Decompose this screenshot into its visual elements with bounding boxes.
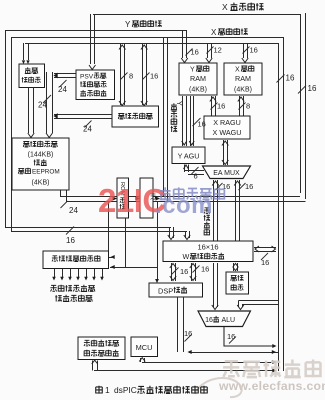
svg-text:X: X [211, 28, 217, 37]
svg-text:(4KB): (4KB) [189, 87, 207, 94]
block: instruction decode and control 指令译码及控制 [43, 251, 109, 269]
svg-text:16: 16 [66, 236, 75, 245]
svg-text:16: 16 [150, 72, 158, 81]
wire: X data bus left descent [11, 37, 13, 231]
wire: EA MUX bottom input 2 from W array (16) [235, 180, 237, 241]
svg-text:(4KB): (4KB) [32, 180, 50, 187]
svg-text:8: 8 [246, 102, 250, 111]
label: 16 on Y RAM input [186, 49, 193, 56]
wire: W array down to ALU left input [213, 263, 215, 307]
svg-text:EA MUX: EA MUX [213, 170, 240, 177]
wire: peripheral block bottom connection [92, 361, 94, 371]
svg-text:16: 16 [261, 258, 269, 267]
svg-text:16: 16 [184, 329, 192, 338]
wire: bus tap down to interrupt controller [23, 43, 25, 60]
svg-text:24: 24 [58, 85, 67, 94]
wire: vertical to instruction decode (upper) [108, 201, 110, 257]
svg-text:W: W [183, 252, 190, 261]
svg-text:MCU: MCU [136, 343, 153, 352]
wire: X RAGU to EA MUX vertical [223, 140, 225, 165]
wire: Y data bus horizontal [5, 30, 187, 32]
wire: PC up-arrow 1 to X data bus (8) [120, 44, 122, 105]
svg-text:DSP: DSP [158, 287, 173, 296]
svg-text:16: 16 [245, 182, 253, 191]
watermark: 中国电子网 blue [160, 187, 225, 199]
wire: IR output down to DSP engine [157, 201, 159, 280]
svg-text:6: 6 [194, 172, 198, 181]
svg-text:16: 16 [205, 317, 213, 324]
svg-text:24: 24 [69, 206, 78, 215]
svg-text:24: 24 [38, 101, 47, 110]
svg-text:16: 16 [308, 84, 317, 93]
wire: ALU right input from right bus [239, 300, 279, 302]
block: interrupt controller 中断控制器 [19, 64, 45, 88]
svg-text:X: X [235, 67, 240, 74]
wire: X data bus lower line [25, 43, 278, 45]
wire: ROM latch down, wire into instruction decode (lower) [125, 218, 127, 267]
svg-text:ALU: ALU [222, 317, 236, 324]
wire: horizontal from right bus to DSP bus [189, 352, 278, 354]
svg-text:16: 16 [198, 120, 206, 129]
svg-text:16: 16 [217, 102, 225, 111]
svg-text:.com: .com [155, 192, 213, 219]
wire: EA MUX to Y AGU (6) [184, 165, 186, 173]
svg-text:RAM: RAM [235, 74, 251, 83]
wire: W array to right data bus (16, bidirectional) [254, 247, 276, 249]
svg-text:Y: Y [125, 20, 131, 29]
wire: 12-bit arrow into Y RAM right [207, 43, 209, 58]
svg-text:16: 16 [201, 265, 209, 274]
svg-text:8: 8 [129, 72, 133, 81]
wire: Y data bus left descent [5, 30, 7, 227]
label: 24 on PSV wire [60, 80, 67, 87]
svg-text:Y: Y [190, 67, 195, 74]
svg-text:16: 16 [180, 267, 188, 276]
block: program memory 程序存储器(144KB)以及数据EEPROM(4KB) [12, 138, 69, 190]
block: Y AGU [172, 147, 205, 164]
wire: lower horizontal to W register array (from Y bus) [5, 227, 171, 229]
block: ROM latch (vertical ROM锁存) [117, 178, 129, 218]
arrow: into ROM latch [113, 196, 118, 200]
svg-text:12: 12 [214, 46, 222, 55]
block: PSV and table access control (PSV和表/访问程序/的控制块) [76, 70, 115, 100]
wire: vertical 24-bit bus left of PSV down to program memory [46, 72, 48, 133]
svg-text:16×16: 16×16 [197, 243, 218, 252]
arrow: ROM latch to IR [136, 196, 141, 200]
svg-text:16: 16 [286, 74, 295, 83]
wire: ALU output to right bus (16) [224, 327, 273, 346]
wire: PSV left output wire [54, 73, 76, 75]
wire: W array to DSP engine bus 2 (16) [191, 263, 193, 281]
watermark: elecfans 电子发烧友 [223, 360, 320, 378]
wire: inner frame left vertical pair [163, 37, 165, 196]
svg-text:X WAGU: X WAGU [213, 128, 242, 137]
svg-text:1: 1 [105, 385, 110, 395]
text: control signals to various modules 不同功能模块/的控制信号 [50, 285, 94, 292]
arrow: IR output [156, 196, 161, 200]
wire: program counter left wire (24) [54, 114, 112, 116]
block: MCU [131, 337, 158, 357]
watermark: elecfans logo swirl [195, 378, 242, 397]
wire: X WAGU up-arrow to X RAM (8) [239, 96, 241, 116]
svg-text:X: X [222, 2, 228, 12]
label: 24 on PC left wire [85, 121, 92, 128]
block: X data RAM (4KB) [224, 63, 262, 95]
svg-text:16: 16 [227, 332, 235, 341]
block: DSP engine DSP引擎 [149, 283, 203, 297]
block: divide support 除法支持 [226, 272, 249, 294]
svg-text:16: 16 [191, 48, 199, 57]
svg-text:(4KB): (4KB) [234, 87, 252, 94]
wire: W array to DSP engine bus 1 (16) [171, 263, 173, 281]
svg-text:RAM: RAM [190, 74, 206, 83]
svg-text:EEPROM: EEPROM [32, 169, 60, 176]
wire: lower horizontal to W register array (from X bus) [11, 231, 187, 233]
wire: W array top input arrows from left buses [169, 227, 171, 238]
wire: X address bus left descent into PSV block [90, 14, 92, 64]
wire: X address bus top segment [93, 14, 300, 16]
wire: program fetch bus (prog mem to ROM latch / IR, bottom pair) [60, 190, 62, 196]
wire: X RAGU up-arrow to Y RAM (16) [211, 96, 213, 116]
wire: Y AGU address buses up to Y RAM [182, 96, 184, 146]
svg-text:(144KB): (144KB) [28, 152, 54, 159]
wire: PC up-arrow 2 to X data bus (16) [142, 44, 144, 105]
svg-text:Y AGU: Y AGU [178, 152, 200, 161]
wire: Y data bus descent into Y RAM [182, 30, 184, 58]
wire: 16-bit arrow into X RAM [243, 43, 245, 58]
alu: 16-bit ALU trapezoid 16位ALU [198, 311, 251, 327]
wire: X data bus upper line [11, 37, 283, 39]
wire: DSP engine bus down (16) [177, 297, 179, 352]
label: 16 on X address bus right descent [298, 86, 306, 94]
label: 16 on X data bus right descent [277, 75, 285, 83]
svg-text:X RAGU: X RAGU [213, 118, 241, 127]
wire: X address bus right descent [300, 14, 302, 193]
label: 24 on vertical bus [43, 95, 51, 103]
block: W register array 16x16 W寄存器阵列 [163, 241, 253, 262]
caption: 图1 dsPIC芯片内部结构框图 [96, 386, 103, 394]
svg-text:dsPIC: dsPIC [114, 385, 137, 395]
wire: interrupt controller down to program memory [28, 88, 30, 134]
svg-text:24: 24 [83, 125, 92, 134]
wire: MCU bottom connection [140, 358, 142, 362]
label: 24 on program fetch bus [61, 201, 68, 208]
label: 16 on lower horizontals [66, 227, 74, 235]
net label: effective address (rotated 有效地址) [204, 208, 210, 236]
wire: W array to divide support (bidirectional) [233, 263, 235, 271]
block: peripheral serial interface module 外围串行接/口功能模块 [78, 337, 125, 360]
block: program counter 程序计数器 [112, 106, 159, 127]
net label: Y address bus (rotated Y地址总线) [175, 101, 182, 106]
block: instruction register IR (vertical) [140, 178, 153, 218]
arrows: control signals out of decode block [54, 269, 56, 277]
wire: X data bus right descents [278, 43, 280, 371]
wire: EA MUX bottom input 1 from W array (16) [213, 180, 215, 241]
block: Y data RAM (4KB) [179, 63, 217, 95]
svg-text:PSV: PSV [80, 74, 94, 81]
svg-text:16: 16 [250, 46, 258, 55]
mux: EA MUX trapezoid [203, 166, 251, 179]
block: X RAGU / X WAGU [204, 116, 250, 139]
